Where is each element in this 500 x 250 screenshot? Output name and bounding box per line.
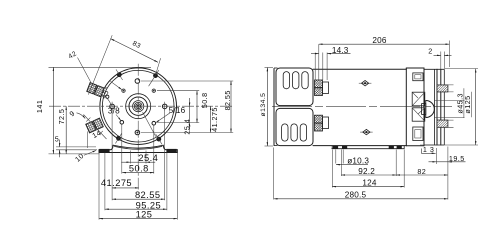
- svg-text:82.55: 82.55: [223, 90, 232, 110]
- base foot pad right: [166, 149, 176, 152]
- svg-text:ø134.5: ø134.5: [260, 93, 267, 117]
- stud drop line: [87, 132, 89, 149]
- dim 206 top: [319, 36, 450, 67]
- foot pad 1: [333, 146, 338, 149]
- svg-text:5: 5: [55, 134, 59, 143]
- flange stud upper: [437, 85, 454, 92]
- rear end cap: [274, 68, 313, 146]
- foot pad 3: [389, 146, 394, 149]
- svg-text:41.275: 41.275: [101, 178, 132, 188]
- radial centerline to lower-right dot: [143, 112, 156, 137]
- motor body side: [313, 68, 406, 146]
- svg-text:3/8: 3/8: [108, 106, 120, 115]
- svg-text:280.5: 280.5: [345, 191, 367, 200]
- svg-text:ø125: ø125: [463, 95, 472, 113]
- feet under body: [332, 146, 405, 149]
- flange top extension line: [445, 68, 478, 70]
- shaft inner circle: [136, 104, 141, 109]
- drive cap bolt box bottom: [413, 127, 423, 141]
- dim 14.3 top: [311, 46, 351, 55]
- dim dia134.5 left: [260, 68, 273, 147]
- hole upper-left 45deg: [122, 89, 125, 92]
- terminal stud lower-left: [86, 118, 104, 133]
- shaft circle: [133, 101, 144, 112]
- dim 280.5: [274, 191, 448, 200]
- hole lower-left 45deg: [120, 121, 124, 125]
- svg-text:92.2: 92.2: [358, 167, 375, 176]
- dim 2 top: [428, 46, 451, 69]
- leader 42: [78, 58, 92, 84]
- vertical centerline: [137, 64, 139, 190]
- label 5/16: [156, 106, 186, 122]
- hole top: [135, 79, 140, 84]
- label 45deg: [99, 81, 122, 106]
- label 9 with leader arc: [68, 109, 86, 119]
- drive cap boss upper-mid: [412, 92, 425, 106]
- svg-text:14.3: 14.3: [332, 46, 349, 55]
- dim 41.275 right vertical: [210, 106, 219, 132]
- svg-text:125: 125: [136, 209, 153, 219]
- dim 124: [332, 178, 404, 187]
- rear cap vent slots top: [283, 72, 308, 89]
- label 10: [73, 151, 96, 164]
- label 3/8: [108, 106, 121, 120]
- dim 5 left: [55, 134, 97, 157]
- dim 25.4 right vertical: [182, 98, 191, 135]
- svg-text:1 3: 1 3: [423, 145, 434, 154]
- svg-text:25.4: 25.4: [182, 119, 191, 135]
- bearing circle: [129, 97, 147, 115]
- hole lower-right 45deg: [152, 121, 156, 125]
- svg-text:ø10.3: ø10.3: [347, 156, 369, 165]
- rim bolt dot lower-left: [115, 133, 121, 143]
- foot pad 2: [342, 146, 347, 149]
- svg-text:5/16: 5/16: [169, 106, 186, 115]
- rim bolt dot upper-left: [116, 69, 123, 80]
- dim 83 diagonal: [88, 35, 160, 94]
- base foot pad left: [99, 149, 109, 152]
- dim dia10.3: [336, 156, 369, 165]
- horizontal centerline: [49, 105, 233, 107]
- foot pad 4: [397, 146, 402, 149]
- shaft center hole: [137, 105, 139, 107]
- dim 50.8 bottom: [122, 164, 154, 174]
- drive cap boss lower-mid: [412, 108, 425, 121]
- motor body outer circle: [100, 68, 177, 145]
- dim 95.25 bottom: [105, 200, 167, 210]
- bottom extension columns side view: [274, 147, 448, 200]
- dim 72.5 vertical: [57, 106, 66, 154]
- drive cap bolt box top: [413, 73, 423, 81]
- side view centerline: [272, 105, 452, 107]
- label 42: [67, 50, 78, 60]
- mounting flange plate: [424, 69, 444, 145]
- body bolt diamond lower: [360, 129, 373, 134]
- terminal stud upper-left: [87, 83, 104, 97]
- svg-text:19.5: 19.5: [449, 154, 465, 163]
- svg-text:82: 82: [417, 167, 426, 176]
- svg-text:72.5: 72.5: [57, 109, 66, 125]
- svg-text:50.8: 50.8: [200, 92, 209, 108]
- hole right: [162, 102, 167, 111]
- extension columns bottom: [99, 109, 177, 220]
- dim 125 bottom: [99, 209, 177, 219]
- dim 50.8 right vertical: [197, 91, 209, 123]
- shaft step circle: [134, 102, 142, 110]
- dim 82: [396, 167, 448, 176]
- dim 14 on lower stud: [84, 115, 107, 141]
- front end cap (drive side): [406, 68, 424, 146]
- hole bottom: [135, 130, 140, 135]
- dim 25.4 bottom: [121, 153, 158, 163]
- dim 92.2: [341, 167, 396, 176]
- base foot outline: [99, 145, 177, 152]
- flange stud lower: [437, 120, 454, 127]
- svg-text:206: 206: [372, 36, 387, 45]
- dim 141 vertical: [35, 67, 151, 154]
- dim 82.55 bottom: [112, 190, 165, 200]
- terminal stud lower (side): [315, 115, 329, 131]
- rim bolt dot lower-right: [156, 134, 162, 144]
- svg-text:141: 141: [35, 100, 44, 113]
- svg-text:41.275: 41.275: [210, 107, 219, 132]
- rear cap vent slots bottom: [282, 124, 307, 141]
- rim bolt dot upper-right: [149, 70, 159, 86]
- dim 19.5: [429, 154, 466, 163]
- svg-text:124: 124: [362, 178, 377, 187]
- svg-text:25.4: 25.4: [138, 153, 158, 163]
- terminal extension lines up: [315, 44, 327, 80]
- shaft boss circle: [126, 94, 151, 119]
- dim 41.275 bottom: [101, 178, 139, 188]
- body bolt diamond upper: [359, 81, 372, 86]
- svg-text:82.55: 82.55: [135, 190, 161, 200]
- flange bottom extension line: [420, 144, 478, 146]
- hole left: [110, 102, 115, 111]
- dim 3: [421, 145, 435, 154]
- right side extension lines of front view: [141, 81, 233, 133]
- svg-text:50.8: 50.8: [129, 164, 149, 174]
- motor body inner rim circle: [102, 70, 174, 142]
- shaft bearing boss: [422, 101, 435, 118]
- dim dia45.3: [434, 88, 465, 118]
- dim dia125: [463, 69, 476, 145]
- terminal stud upper (side): [315, 80, 329, 96]
- small hole near stud: [106, 95, 109, 98]
- dim 82.55 right vertical: [223, 81, 232, 133]
- hole upper-right 45deg: [152, 89, 155, 92]
- svg-text:2: 2: [428, 46, 432, 55]
